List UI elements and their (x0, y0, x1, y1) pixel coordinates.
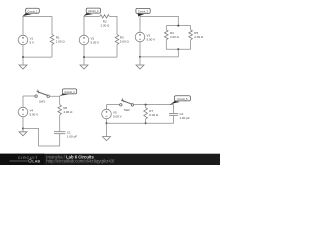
wire bottom C5 (107, 122, 174, 124)
svg-text:2.00 Ω: 2.00 Ω (170, 35, 180, 39)
svg-text:Circuit_3: Circuit_3 (138, 10, 149, 14)
wire left lower C3 (139, 42, 141, 57)
switch SW1 (35, 90, 50, 98)
node bottom bus (177, 48, 179, 50)
resistor R4 (165, 30, 169, 40)
bottom bus C3 (166, 48, 190, 50)
svg-text:SW1: SW1 (39, 100, 46, 104)
label Circuit_2 (83, 13, 92, 16)
label Circuit_1 (22, 13, 32, 16)
resistor R6 (58, 105, 62, 115)
wire left lower C2 (83, 45, 85, 57)
svg-text:Circuit_2: Circuit_2 (88, 9, 99, 13)
wire top-left C4 (23, 95, 35, 97)
svg-text:5.00 V: 5.00 V (91, 41, 100, 45)
wire left upper C1 (22, 16, 24, 35)
wire bottom C4 (23, 129, 60, 147)
svg-text:1.00 µF: 1.00 µF (67, 134, 77, 138)
svg-text:1.00 µF: 1.00 µF (180, 116, 190, 120)
label Circuit_3 (138, 14, 145, 17)
wire left lower C5 (106, 119, 108, 124)
svg-text:5.00 V: 5.00 V (113, 115, 122, 119)
svg-text:5 V: 5 V (30, 41, 35, 45)
svg-text:Circuit_1: Circuit_1 (27, 9, 38, 13)
svg-text:2.00 Ω: 2.00 Ω (194, 35, 204, 39)
ground C2 (83, 57, 85, 65)
capacitor C1 (54, 132, 65, 134)
wire left C2 (83, 16, 85, 35)
wire right lower C5 (173, 116, 175, 124)
node junction C5 left (106, 122, 108, 124)
logo gear (29, 160, 32, 163)
node junction R7 bottom (145, 122, 147, 124)
svg-text:LAB: LAB (32, 159, 40, 163)
wire left lower C1 (22, 45, 24, 57)
ground C5 (106, 123, 108, 136)
voltage source V2 (79, 35, 89, 45)
wire left upper C4 (22, 96, 24, 107)
resistor R2 (100, 15, 110, 18)
wire switch to corner C4 (50, 96, 60, 105)
resistor R3 (115, 35, 119, 45)
svg-text:6.00 Ω: 6.00 Ω (149, 113, 159, 117)
logo lines (10, 160, 28, 161)
wire right upper C5 (173, 105, 175, 114)
wire left lower C4 (22, 117, 24, 129)
top bus C3 (166, 25, 190, 27)
svg-text:5.00 V: 5.00 V (30, 113, 39, 117)
wire top-left C2 (84, 15, 100, 17)
ground C4 (22, 129, 24, 132)
node junction R7 top (145, 104, 147, 106)
svg-text:Circuit_5: Circuit_5 (177, 97, 188, 101)
branch stubs top (165, 26, 167, 30)
svg-text:5.00 V: 5.00 V (147, 38, 156, 42)
wire bottom C2 (84, 56, 117, 58)
svg-text:5.00 Ω: 5.00 Ω (120, 40, 130, 44)
resistor R1 (50, 35, 54, 45)
wire top C3 (140, 16, 178, 25)
svg-text:1.00 Ω: 1.00 Ω (56, 40, 66, 44)
wire bottom C3 (140, 49, 178, 57)
node junction C1 (22, 56, 24, 58)
svg-text:4.00 Ω: 4.00 Ω (63, 110, 73, 114)
ground C1 (22, 57, 24, 65)
wire switch to C2 branch (134, 104, 174, 106)
wire right upper C1 (51, 16, 53, 34)
node junction C4 (22, 128, 24, 130)
resistor R7 (145, 105, 147, 108)
node junction C2 (83, 56, 85, 58)
svg-text:http://circuitlab.com/c64z9qyq: http://circuitlab.com/c64z9qyqtkz43/ (46, 159, 115, 164)
wire left C3 (139, 16, 141, 32)
label Circuit_4 (59, 94, 68, 97)
voltage source V1 (18, 35, 28, 45)
switch SW2 (120, 98, 134, 106)
label Circuit_5 (169, 101, 180, 105)
node top bus (177, 25, 179, 27)
wire top-left C5 (107, 104, 120, 106)
wire left upper C5 (106, 105, 108, 110)
branch stubs bottom (165, 40, 167, 50)
wire top C1 (23, 15, 52, 17)
capacitor C2 (169, 113, 178, 115)
node junction C3 (139, 56, 141, 58)
voltage source V5 (102, 109, 112, 119)
svg-text:2.00 Ω: 2.00 Ω (101, 23, 111, 27)
wire top-right C2 (109, 16, 117, 34)
svg-text:SW2: SW2 (124, 108, 131, 112)
ground C3 (139, 57, 141, 65)
resistor R5 (189, 30, 193, 40)
wire bottom C1 (23, 56, 52, 58)
wire R6 to C1 (59, 115, 61, 132)
wire right lower C2 (116, 45, 118, 58)
voltage source V4 (18, 107, 28, 117)
svg-text:Circuit_4: Circuit_4 (64, 90, 75, 94)
voltage source V3 (135, 32, 145, 42)
wire right lower C1 (51, 45, 53, 58)
